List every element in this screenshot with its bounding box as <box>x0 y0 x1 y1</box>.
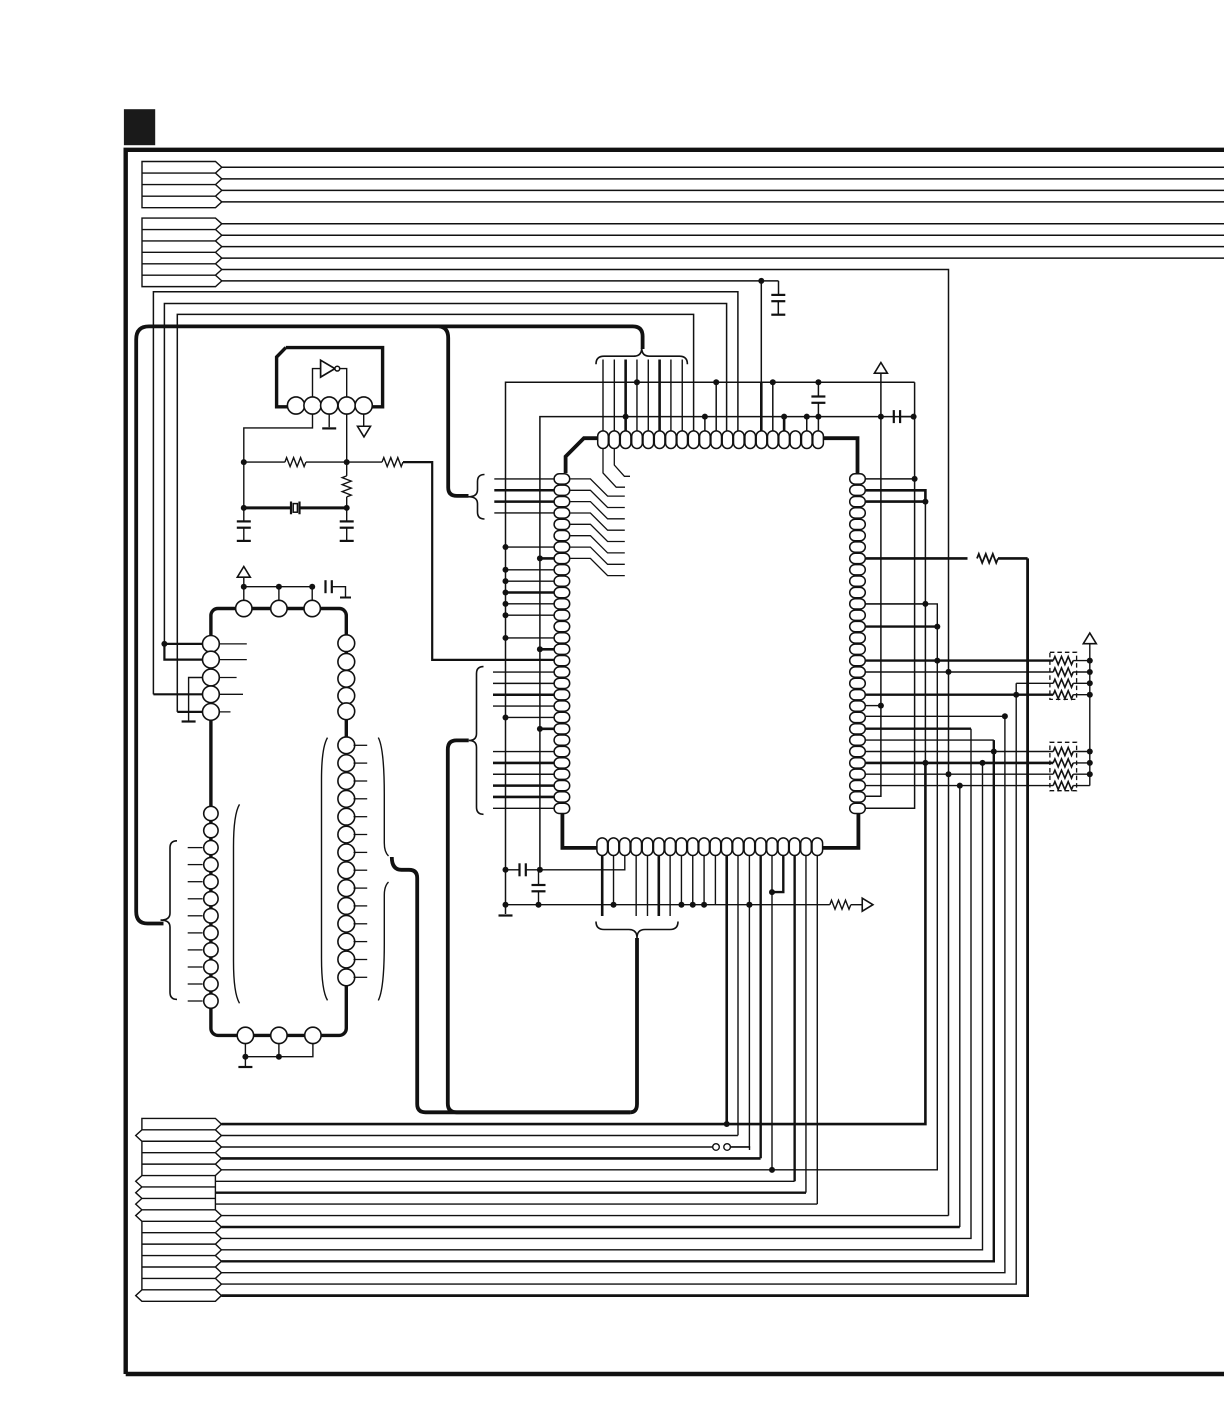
signal arrow (open triangle) right of R4 <box>862 898 873 911</box>
junction dot GND arm / left pin 15 <box>503 635 509 641</box>
wire flag 2-5 to vertical bus x948 <box>222 270 949 1216</box>
IC1 bottom pin12 lead to wire W1 (thick) <box>725 856 728 1125</box>
junction dot node X2 bottom <box>344 505 350 511</box>
junction dot VDD arm / left pin 23 <box>537 726 543 732</box>
RN2 right leads to VDD2 <box>1073 752 1090 786</box>
wire brace1 to left pin 2 <box>494 489 554 492</box>
CN1 pin stubs (NC) right of upper-left pins <box>220 644 247 712</box>
C3 right lead to ground <box>332 587 346 597</box>
wire brace to top pin 2 <box>613 360 615 432</box>
RN1 resistor 4 <box>1053 691 1073 699</box>
CN1 left edge pins upper (5 circles) <box>203 636 220 721</box>
wire brace2 to left pin 30 <box>493 807 554 809</box>
wire W2 flag to bottom pin13 <box>221 1135 738 1137</box>
ground bar below CN1 <box>238 1066 252 1068</box>
wire brace to top pin 3 <box>624 360 627 432</box>
CN1 NC stubs left of lower-left pins <box>188 848 203 1001</box>
wire W16 (thick) flag to riser x1027 <box>221 558 1027 1295</box>
wire from flag 2-2 to right edge <box>222 234 1224 236</box>
ground bar for CN1 pin3 <box>182 720 196 722</box>
wire bus C to CN1 pin5 <box>177 711 202 713</box>
bracket right of CN1 lower-right pins upper arc <box>378 738 388 856</box>
CN1 top edge pins (3 circles) <box>236 600 321 616</box>
IC1 body corner bottom-left <box>562 813 596 848</box>
wire osc pin2 down-left to node X1 <box>244 414 313 462</box>
junction dot GND arm / left pin 9 <box>503 567 509 573</box>
wire r8 (thick) through R5 to riser x1027 <box>866 557 968 560</box>
wire brace to top pin 5 <box>647 360 649 432</box>
ground bar under C1 <box>237 540 251 542</box>
junction dot W15 riser / r20 thick wire <box>1013 692 1019 698</box>
junction dot W5 riser / RN1-R1 wire <box>934 658 940 664</box>
wire brace2 to left pin 27 <box>493 773 554 775</box>
wire brace to top pin 8 <box>681 360 683 432</box>
junction dot RN1 / VDD2 <box>1087 658 1093 664</box>
VDD2 vertical <box>1089 651 1091 786</box>
wire brace1 to left pin 1 <box>494 478 554 480</box>
junction dot r12 / riser x925 <box>922 601 928 607</box>
ground lead below CN1 <box>244 1057 246 1067</box>
CN1 right edge pins lower (14 circles) <box>338 737 355 986</box>
wire VDD arm to left pin 16 <box>540 648 554 651</box>
RN2-R4 wire from r27 <box>866 785 1053 787</box>
junction dots CN1 bottom rail <box>242 1054 282 1060</box>
junction dot GND arm / left pin 11 <box>503 590 509 596</box>
junction dot pin9 / GND rail <box>690 902 696 908</box>
CN1 bottom edge pins (3 circles) <box>237 1027 321 1043</box>
wire W13 (thick) flag to riser x993 <box>221 740 993 1261</box>
ground bar under osc pin3 <box>322 427 336 429</box>
inverter U2 inside oscillator <box>321 360 335 377</box>
resistor network RN2 dashed box <box>1050 742 1077 790</box>
brace for IC1 left pins 1-4 <box>469 475 485 520</box>
RN2 resistor 4 <box>1053 782 1073 790</box>
IC1 bottom pin5 lead to brace <box>646 856 648 917</box>
RN1-R2 wire from r18 <box>866 671 1053 673</box>
wire W1 (thick) flag to riser x925 <box>221 763 925 1124</box>
jumper open circles on W3 <box>713 1144 731 1151</box>
IC1 body corner bottom-right <box>822 813 858 848</box>
bracket left of CN1 lower-right pins <box>322 738 328 1001</box>
RN2 resistor 2 <box>1053 759 1073 767</box>
RN2-R2 wire from r25 (thick) <box>866 762 1053 765</box>
bracket right of CN1 lower-left pins <box>234 804 240 1003</box>
junction dot pin8 / GND rail <box>678 902 684 908</box>
RN2 resistor 1 <box>1053 748 1073 756</box>
IC1 bottom pin row (20 pins) <box>597 838 823 856</box>
power symbol at CN1 (triangle) <box>237 567 250 578</box>
CN1 right edge pins upper (5 circles) <box>338 635 355 720</box>
GND rail right arm down to r30 <box>866 382 915 808</box>
brace for IC1 left pins 18-30 <box>469 667 484 815</box>
wire W3 flag to jumper circle <box>221 1146 712 1148</box>
wire inverter input from pin2 <box>313 369 321 397</box>
oscillator module outline <box>277 348 383 407</box>
junction dot W5 riser / r14 wire <box>934 624 940 630</box>
junction dot pin17 / pin16 leads <box>769 889 775 895</box>
C2 top lead <box>346 508 348 522</box>
wire VDD rail to top pin 19 <box>806 417 808 432</box>
VDD triangle lead down / delta vertical <box>866 373 881 796</box>
inverter output bubble <box>335 366 340 371</box>
RN1 right leads to VDD2 <box>1073 661 1090 695</box>
riser x959 up to r28 wire <box>959 786 961 1227</box>
junction dot VDD rail / pin19 <box>804 414 810 420</box>
junction dot VDD rail / pin17 <box>781 414 787 420</box>
IC1 right pin column (30 pins) <box>850 474 866 814</box>
junction dot r3 / riser <box>922 499 928 505</box>
junction dot pin10 / GND rail <box>701 902 707 908</box>
crystal right lead (thick) <box>300 506 347 509</box>
wire W9 flag to riser x948 <box>221 1215 948 1217</box>
junction dot pin14 / GND rail <box>746 902 752 908</box>
wire brace to top pin 4 <box>636 360 638 432</box>
capacitor C7 <box>894 410 900 423</box>
RN1 resistor 1 <box>1053 657 1073 665</box>
wire from flag 1-1 to right edge <box>222 166 1224 168</box>
power symbol VDD (triangle) <box>874 363 887 374</box>
junction dot C8 / GND arm <box>503 867 509 873</box>
junction dot node X1 top <box>241 459 247 465</box>
riser x925 middle section <box>924 502 926 763</box>
connector CN1 body <box>211 609 346 1036</box>
resistor R5 <box>977 554 998 563</box>
brace for CN1 lower-left pins <box>161 841 178 1000</box>
IC1 bottom pin17 lead joining pin16 <box>772 856 783 893</box>
IC1 bottom pin20 lead to wire W8 <box>816 856 818 1205</box>
IC1 top pin row (20 pins) <box>598 431 824 449</box>
wire GND arm to left pin 15 <box>506 637 555 639</box>
C8 right lead <box>526 869 540 871</box>
thick bus: top run with left drop to connector brace <box>136 326 642 923</box>
wire W8 flag to bottom pin20 <box>215 1203 817 1205</box>
junction dot C9 / GND rail <box>536 902 542 908</box>
wire VDD rail to top pin 17 (thick) <box>783 417 786 432</box>
junction dot RN1 / VDD2 <box>1087 680 1093 686</box>
wire brace2 to left pin 19 <box>493 682 554 684</box>
signal flags bottom group (16 bus arrows) <box>136 1118 222 1301</box>
wire W6 flag to bottom pin18 <box>215 1180 794 1182</box>
IC1 bottom pin18 lead to wire W6 (thick) <box>793 856 795 1182</box>
IC1 bottom pin10 lead to GND rail <box>703 856 705 905</box>
junction dot GND arm / bottom rail <box>503 902 509 908</box>
junction dot GND arm / r1 wire <box>912 476 918 482</box>
VDD rail y416 with left arm down left side of IC1 <box>540 417 914 870</box>
IC1 bottom pin7 lead to brace <box>669 856 671 917</box>
bracket right of CN1 lower-right pins lower arc <box>378 882 388 1000</box>
wire brace1 to left pin 4 <box>494 512 554 514</box>
resistor R4 on test wire <box>830 900 851 909</box>
wire osc pin4 down to node X2 <box>346 414 348 462</box>
wire GND rail to top pin 16 <box>772 382 774 431</box>
thick bus: branch down to left-pins brace 1 <box>440 326 469 496</box>
oscillator module pins (5 circles) <box>287 397 372 414</box>
brace under IC1 bottom pins 1-7 <box>596 922 678 939</box>
IC1 bottom pin16 lead to wire W5 <box>771 856 773 1170</box>
IC1 bottom pin4 lead to brace <box>635 856 637 917</box>
thick bus from brace2 down to bottom bus <box>448 740 630 1112</box>
wire r24 to riser x993 <box>866 739 994 741</box>
wire W15 flag to riser x1016 <box>221 683 1016 1284</box>
brace over IC1 top pins 1-8 <box>596 348 687 364</box>
wire W3 jumper to pin14 riser <box>730 1147 749 1150</box>
wire brace2 to left pin 18 <box>493 671 554 673</box>
rail triangle under osc pin5 <box>358 426 371 437</box>
thick bus from bottom brace down to bottom bus <box>630 938 637 1112</box>
CN1 left edge pins lower (12 circles) <box>204 806 218 1008</box>
junction dot pin3 wire / VDD arm <box>537 867 543 873</box>
wire R4 to arrow <box>851 904 863 906</box>
junction dot net W9 / resistor R3 of RN2 <box>946 771 952 777</box>
resistor R3 (vertical) <box>342 476 351 497</box>
IC1 bottom pin19 lead to wire W7 <box>805 856 807 1193</box>
VDD2 triangle lead <box>1089 644 1091 651</box>
RN2 resistor 3 <box>1053 770 1073 778</box>
bus wire B (to top pin12 / conn pins1-2) <box>164 304 726 644</box>
IC1 internal bus fan lines <box>570 449 630 576</box>
wire GND arm to left pin 9 <box>506 569 555 571</box>
junction dot GND arm / left pin 12 <box>503 601 509 607</box>
capacitor C6 lower lead <box>777 301 779 315</box>
capacitor C6 lead <box>778 281 780 295</box>
oscillator module bottom edge segments <box>288 405 370 408</box>
IC1 bottom pin9 lead to GND rail <box>692 856 694 905</box>
junction dot VDD arm / left pin 16 <box>537 646 543 652</box>
junction dot GND rail / pin11 <box>713 379 719 385</box>
junction dot W13 riser / RN2-R1 wire <box>991 749 997 755</box>
IC1 bottom pin6 lead (thick) <box>657 856 660 917</box>
junction dot pin12 / wire W1 <box>724 1121 730 1127</box>
RN1-R1 wire from r17 (thick) <box>866 659 1053 661</box>
wire W4 (thick) flag to bottom pin15 <box>221 1157 760 1160</box>
wire from flag 2-3 to right edge <box>222 246 1224 248</box>
wire VDD arm to left pin 23 <box>540 728 554 731</box>
capacitor C1 <box>237 521 251 527</box>
junction dot net W9 / resistor R2 of RN1 <box>946 669 952 675</box>
junction dot GND arm / left pin 22 <box>503 714 509 720</box>
junction dot test wire tap at pin14 <box>746 902 752 908</box>
wire CN1 pin3 to ground <box>189 678 203 721</box>
wire brace2 to left pin 25 <box>493 751 554 753</box>
C9 bottom lead <box>538 891 540 904</box>
RN1-R4 wire from r20 (thick) <box>866 694 1053 696</box>
wire bus A to CN1 pin4 <box>153 693 202 695</box>
IC1 bottom pin15 lead to wire W4 (thick) <box>759 856 761 1159</box>
junction dot pin2 / GND rail <box>611 902 617 908</box>
C8 left lead <box>506 869 520 871</box>
RN2-R3 wire from r26 <box>866 773 1053 775</box>
wire r23 (thick) to riser x971 <box>866 728 971 730</box>
C7 right lead <box>900 416 914 418</box>
resistor R2 (series to IC) <box>382 458 403 467</box>
crystal Y1 plates <box>291 502 300 515</box>
ground symbol at bottom of GND arm <box>499 914 513 916</box>
junction dot RN2-R2 / riser x925 <box>922 760 928 766</box>
wire brace2 to left pin 29 <box>493 796 554 799</box>
wire brace to top pin 1 <box>602 360 604 432</box>
wire osc pin5 to rail symbol <box>363 414 365 427</box>
wire brace2 to left pin 26 <box>493 762 554 765</box>
junction dot W14 riser / r22 wire <box>1002 713 1008 719</box>
junction dots CN1 top rail <box>241 584 315 590</box>
RN2-R1 wire from r24 <box>866 751 1053 753</box>
junction dot RN1 / VDD2 <box>1087 669 1093 675</box>
wire W7 (thick) flag to bottom pin19 <box>215 1191 806 1193</box>
wire from flag 1-4 to right edge <box>222 201 1224 203</box>
C9 top lead <box>538 870 540 885</box>
wire GND arm to left pin 11 <box>506 591 555 593</box>
title block square <box>124 109 155 145</box>
wire r21 to delta vertical <box>866 705 881 707</box>
IC1 bottom pin8 lead to GND rail <box>680 856 682 905</box>
junction dot delta lead / VDD rail <box>878 414 884 420</box>
wire from flag 1-3 to right edge <box>222 189 1224 191</box>
junction dot GND arm / left pin 10 <box>503 578 509 584</box>
R2 left lead <box>347 461 382 463</box>
wire GND arm to left pin 7 <box>506 546 555 548</box>
bus wire A (to top pin13 / conn pin4) <box>153 292 738 695</box>
wire from flag 1-2 to right edge <box>222 178 1224 180</box>
junction dot VDD arm / left pin 8 <box>537 555 543 561</box>
signal flags group 2 (6 off-page arrows) <box>142 218 222 287</box>
junction dot r21 / delta vertical <box>878 703 884 709</box>
R1 left lead <box>244 461 285 463</box>
wire W5 flag to riser x937 <box>221 604 937 1170</box>
junction dot W12 riser / r26 wire <box>980 760 986 766</box>
wire brace1 to left pin 3 <box>494 500 554 503</box>
capacitor C9 (bypass) <box>532 885 546 891</box>
wire VDD arm to left pin 8 <box>540 557 554 560</box>
junction dot node X1 bottom <box>241 505 247 511</box>
wire GND rail to top pin 11 <box>715 382 717 431</box>
node X1 vertical <box>243 462 245 521</box>
wire r2-r3 (thick) to riser x925 <box>866 490 925 501</box>
wire W12 flag to riser x982 <box>221 763 982 1250</box>
wire brace2 to left pin 28 <box>493 784 554 787</box>
wire W11 flag to riser x971 <box>221 729 971 1239</box>
IC1 bottom pin13 lead to wire W2 <box>737 856 739 1136</box>
wire GND arm to left pin 10 <box>506 580 555 582</box>
wire inverter output to pin4 <box>340 369 347 397</box>
RN1 resistor 2 <box>1053 668 1073 676</box>
ground bar under C2 <box>340 540 354 542</box>
junction dot pin4 / GND rail <box>634 379 640 385</box>
junction dot pin3 / VDD rail <box>623 414 629 420</box>
wire IC1 right pin1 to GND arm <box>866 478 915 480</box>
wire W10 (thick) flag to riser x959 <box>221 1226 959 1228</box>
GND rail below IC1 <box>506 904 830 906</box>
triangle lead <box>243 577 245 587</box>
CN1 top pins common rail <box>244 587 312 601</box>
wire R2 to IC1 left pin 17 <box>403 462 554 660</box>
C2 lower lead <box>346 528 348 541</box>
IC1 bottom pin3 lead to VDD wire <box>540 856 625 870</box>
R5 right lead to riser (thick) <box>998 557 1028 560</box>
wire brace to top pin 6 <box>658 360 661 432</box>
wire osc pin3 to ground <box>328 414 330 427</box>
signal flags group 1 (4 off-page arrows) <box>142 162 222 208</box>
resistor network RN1 dashed box <box>1050 652 1077 699</box>
wire r22 to riser x1004 <box>866 715 1005 717</box>
capacitor C5 between rails <box>811 397 825 403</box>
capacitor C6 <box>771 295 785 301</box>
wire brace2 to left pin 21 <box>493 705 554 707</box>
junction dot W10 riser / RN2-R4 wire <box>957 783 963 789</box>
junction dot C5 / VDD rail <box>815 414 821 420</box>
IC1 bottom pin2 lead to GND rail <box>613 856 615 905</box>
crystal left lead (thick) <box>244 506 291 509</box>
ground bar under C6 <box>771 314 785 316</box>
wire brace to top pin 7 <box>670 360 672 432</box>
wire from flag 2-4 to right edge <box>222 257 1224 259</box>
wire from flag 2-1 to right edge <box>222 223 1224 225</box>
wire r14 (thick) to riser x937 <box>866 625 937 627</box>
bus wire C (to top pin9 / conn pin5) <box>177 314 693 712</box>
capacitor C3 on CN1 rail <box>326 580 332 593</box>
wire bus B to CN1 pin1 and pin2 <box>164 644 202 660</box>
junction dot bus B / pin1 wire <box>161 641 167 647</box>
capacitor C2 <box>340 521 354 527</box>
wire brace2 to left pin 20 <box>493 693 554 696</box>
IC1 bottom pin11 lead <box>714 856 716 905</box>
IC1 body corner top-right <box>822 438 857 473</box>
junction dot flag2-6 / pin15 stub <box>758 278 764 284</box>
RN1 resistor 3 <box>1053 679 1073 687</box>
schematic border frame <box>126 150 1224 1374</box>
IC1 bottom pin14 lead to jumper <box>731 856 750 1147</box>
resistor R1 (feedback) <box>285 458 306 467</box>
wire flag 2-6 to IC1 top pin 15 <box>222 280 779 282</box>
wire VDD rail to top pin 10 <box>704 417 706 432</box>
CN1 NC stubs right of lower-right pins <box>354 745 368 977</box>
junction dot GND rail / C5 top lead <box>815 379 821 385</box>
junction dot RN1 / VDD2 <box>1087 692 1093 698</box>
junction dot W5 / pin16 lead <box>769 1167 775 1173</box>
wire GND arm to left pin 13 <box>506 614 555 616</box>
junction dot GND arm / left pin 13 <box>503 612 509 618</box>
junction dot RN2 / VDD2 <box>1087 760 1093 766</box>
IC1 body corner top-left (chamfer) <box>566 438 599 473</box>
junction dot RN2 / VDD2 <box>1087 771 1093 777</box>
wire W14 flag to riser x1004 <box>221 716 1005 1272</box>
junction dot GND arm / left pin 7 <box>503 544 509 550</box>
ground bar right of C3 <box>340 597 351 599</box>
C1 lower lead <box>243 528 245 541</box>
R1 right lead <box>306 461 347 463</box>
power symbol VDD2 (triangle) <box>1083 633 1096 644</box>
junction dot C7 / GND right arm <box>911 414 917 420</box>
wire r12 to riser x925 <box>866 603 925 605</box>
wire GND arm to left pin 12 <box>506 603 555 605</box>
IC1 left pin column (30 pins) <box>554 474 570 814</box>
capacitor C8 (bypass) <box>520 863 526 876</box>
junction dot RN2 / VDD2 <box>1087 749 1093 755</box>
junction dot node X2 top <box>344 459 350 465</box>
C5 leads and wire to top pin 20 <box>817 382 819 431</box>
junction dot VDD rail / pin10 <box>702 414 708 420</box>
IC1 bottom pin1 lead (thick) <box>601 856 604 917</box>
GND rail y382 with left arm down to ground <box>506 382 915 914</box>
wire GND arm to left pin 22 <box>506 716 555 718</box>
R3 leads <box>346 462 348 508</box>
CN1 bottom pins common rail <box>245 1044 313 1057</box>
stub wire down to IC1 top pin 15 <box>760 281 762 432</box>
junction dot GND rail / pin16 <box>770 379 776 385</box>
thick bus from CN1 right-pin bracket to bottom bus <box>392 857 630 1112</box>
RN1-R3 jog wire <box>1016 682 1053 684</box>
